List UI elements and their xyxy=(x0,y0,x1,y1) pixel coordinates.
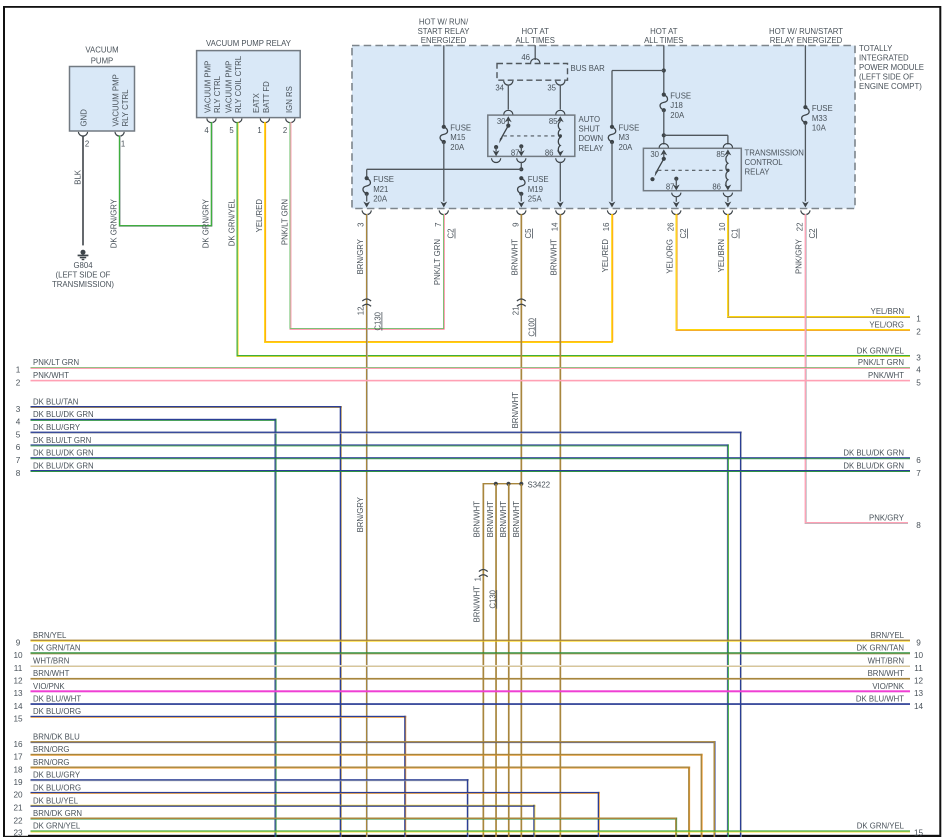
wire DK GRN/GRY pump to relay pin 4 xyxy=(119,122,213,227)
svg-text:DOWN: DOWN xyxy=(579,134,604,143)
svg-text:12: 12 xyxy=(357,307,366,316)
svg-text:14: 14 xyxy=(13,702,23,711)
right edge 6 DK BLU/DK GRN xyxy=(843,449,921,465)
svg-text:21: 21 xyxy=(511,307,520,316)
svg-text:BRN/WHT: BRN/WHT xyxy=(33,669,70,678)
vacuum pump relay box xyxy=(197,51,301,118)
label YEL/RED (TIPM pin 16) xyxy=(601,239,610,273)
wire DK BLU/DK GRN left 8 to right 7 xyxy=(16,461,910,477)
right edge 2 YEL/ORG xyxy=(869,320,921,336)
label BRN/WHT below C130 xyxy=(473,586,482,623)
wire TCR 86 to pin 10 xyxy=(725,196,732,207)
wire VIO/PNK left 13 to right 13 xyxy=(13,682,923,698)
wire BRN/WHT TIPM pin 9 to splice S3422 xyxy=(521,214,523,484)
svg-text:PNK/WHT: PNK/WHT xyxy=(33,371,69,380)
svg-text:PNK/LT GRN: PNK/LT GRN xyxy=(281,199,290,245)
svg-text:20A: 20A xyxy=(373,195,388,204)
svg-text:25A: 25A xyxy=(528,195,543,204)
svg-text:RLY CTRL: RLY CTRL xyxy=(213,75,222,113)
svg-text:VACUUM: VACUUM xyxy=(85,46,118,55)
label DK GRN/YEL (relay) xyxy=(227,198,236,246)
wire BRN/DK GRN left 22 xyxy=(13,809,677,837)
svg-text:4: 4 xyxy=(916,366,921,375)
wire DK BLU/ORG left 20 xyxy=(13,783,599,837)
label BRN/WHT (above splice) xyxy=(511,392,520,429)
svg-text:10: 10 xyxy=(914,651,924,660)
svg-text:10: 10 xyxy=(13,651,23,660)
svg-text:10A: 10A xyxy=(812,124,827,133)
svg-text:RELAY: RELAY xyxy=(745,167,771,176)
svg-text:ENGINE COMPT): ENGINE COMPT) xyxy=(859,82,922,91)
svg-text:DK BLU/WHT: DK BLU/WHT xyxy=(856,695,904,704)
fuse M19 25A xyxy=(518,175,549,204)
wire BRN/DK BLU left 16 xyxy=(13,733,715,837)
wire DK BLU/WHT left 14 to right 14 xyxy=(13,695,923,711)
wire YEL/RED relay pin 1 to TIPM pin 16 xyxy=(264,122,613,343)
svg-text:7: 7 xyxy=(16,456,21,465)
label BRN/GRY (upper) xyxy=(356,238,365,274)
ASD pin 87 connector arc xyxy=(517,158,526,162)
svg-text:DK GRN/YEL: DK GRN/YEL xyxy=(857,346,905,355)
svg-text:BRN/YEL: BRN/YEL xyxy=(33,631,67,640)
svg-text:BRN/WHT: BRN/WHT xyxy=(473,586,482,623)
wire BRN/WHT splice branch 3 xyxy=(508,484,510,837)
wire PNK/GRY TIPM pin 22 to right edge 8 xyxy=(805,214,908,524)
splice S3422 xyxy=(483,480,551,837)
TIPM pin 14 xyxy=(550,210,565,231)
svg-text:15: 15 xyxy=(914,828,924,837)
wire feed into bus bar pin 46 xyxy=(534,45,536,60)
wire BRN/ORG left 17 xyxy=(13,745,702,837)
svg-text:86: 86 xyxy=(545,148,554,157)
wire branch to fuse M3 xyxy=(612,71,664,127)
wire BRN/WHT splice branch 4 xyxy=(521,484,523,837)
ASD pin 85 label xyxy=(549,117,558,126)
svg-text:ALL TIMES: ALL TIMES xyxy=(515,36,554,45)
svg-text:87: 87 xyxy=(666,182,675,191)
wire fuse J18 to TCR pin 30 xyxy=(663,110,665,144)
svg-text:23: 23 xyxy=(13,828,23,837)
wire DK BLU/LT GRN left 6 xyxy=(16,436,729,837)
svg-text:C1: C1 xyxy=(731,229,740,239)
svg-text:DK GRN/YEL: DK GRN/YEL xyxy=(227,198,236,246)
TIPM module box (TOTALLY INTEGRATED POWER MODULE) xyxy=(352,46,855,209)
svg-text:FUSE: FUSE xyxy=(670,91,691,100)
junction dot fuse M19/M21 xyxy=(519,167,523,171)
TCR pin 87 label xyxy=(666,182,675,191)
svg-text:FUSE: FUSE xyxy=(812,104,833,113)
svg-text:BRN/GRY: BRN/GRY xyxy=(356,496,365,532)
bus bar pin 34 xyxy=(495,81,513,93)
svg-text:3: 3 xyxy=(357,223,366,227)
wire HOT W/RUN/START relay energized feed to fuse M33 xyxy=(804,45,806,107)
svg-text:C100: C100 xyxy=(527,317,536,336)
svg-text:6: 6 xyxy=(916,456,921,465)
svg-text:13: 13 xyxy=(914,689,924,698)
svg-text:11: 11 xyxy=(914,664,923,673)
ASD pin 85 entry arrow xyxy=(557,116,564,122)
right edge 5 PNK/WHT xyxy=(868,371,921,387)
TCR pin 86 label xyxy=(712,182,721,191)
wire BRN/WHT TIPM pin 14 down to bottom xyxy=(560,214,562,837)
wire fuse M3 to pin 16 xyxy=(609,142,616,208)
wire DK BLU/DK GRN left 4 xyxy=(16,410,277,837)
wire DK GRN/TAN left 10 to right 10 xyxy=(13,644,923,660)
svg-text:11: 11 xyxy=(14,664,23,673)
inline connector C130 pin 12 on BRN/GRY xyxy=(357,299,383,331)
TIPM pin 22 xyxy=(795,210,817,238)
svg-text:VACUUM PMP: VACUUM PMP xyxy=(204,61,213,113)
TIPM pin 16 xyxy=(602,210,617,231)
svg-text:1: 1 xyxy=(257,126,261,135)
svg-text:DK BLU/GRY: DK BLU/GRY xyxy=(33,423,81,432)
vacuum pump pin RLY CTRL label xyxy=(112,74,131,126)
svg-text:13: 13 xyxy=(13,689,23,698)
TCR pin 87 dot xyxy=(674,177,678,181)
svg-text:RLY CTRL: RLY CTRL xyxy=(121,89,130,127)
svg-text:BATT FD: BATT FD xyxy=(262,81,271,113)
wire junction to fuse M21 xyxy=(367,169,522,178)
relay pin 1 number xyxy=(257,126,261,135)
TCR mechanical link dashed xyxy=(658,169,723,171)
svg-text:POWER MODULE: POWER MODULE xyxy=(859,63,924,72)
ASD pin 30 connector arc xyxy=(504,110,513,114)
svg-text:8: 8 xyxy=(916,521,921,530)
fuse M33 10A xyxy=(802,104,833,133)
label BRN/WHT (pin 14) xyxy=(549,239,558,276)
bus bar pin 35 xyxy=(547,81,565,93)
svg-text:BUS BAR: BUS BAR xyxy=(571,64,606,73)
svg-text:START RELAY: START RELAY xyxy=(418,27,471,36)
svg-text:1: 1 xyxy=(916,314,921,323)
svg-text:C2: C2 xyxy=(447,229,456,239)
svg-text:1: 1 xyxy=(16,366,21,375)
wire fuse M19 to pin 9 xyxy=(518,194,525,208)
svg-text:ALL TIMES: ALL TIMES xyxy=(644,36,683,45)
vacuum pump pin 1 connector arc xyxy=(115,132,124,136)
TCR pin 85 connector arc xyxy=(723,143,732,147)
svg-text:DK GRN/YEL: DK GRN/YEL xyxy=(33,822,81,831)
ASD switch common dot xyxy=(506,124,510,128)
svg-text:(LEFT SIDE OF: (LEFT SIDE OF xyxy=(859,72,914,81)
svg-text:85: 85 xyxy=(549,117,558,126)
svg-text:DK BLU/DK GRN: DK BLU/DK GRN xyxy=(843,449,904,458)
inline connector C100 pin 21 on BRN/WHT xyxy=(511,299,536,337)
svg-text:1: 1 xyxy=(473,577,482,581)
svg-text:M21: M21 xyxy=(373,185,388,194)
svg-text:C5: C5 xyxy=(524,228,533,239)
wire BRN/ORG left 18 xyxy=(13,758,690,837)
TIPM pin 10 xyxy=(718,210,740,238)
fuse M3 20A xyxy=(608,123,639,152)
svg-text:GND: GND xyxy=(79,109,88,127)
svg-text:9: 9 xyxy=(916,638,921,647)
ASD 87A connector arc xyxy=(492,158,501,162)
svg-text:5: 5 xyxy=(916,378,921,387)
svg-text:AUTO: AUTO xyxy=(579,115,601,124)
TCR switch contact dot xyxy=(650,177,654,181)
svg-text:20A: 20A xyxy=(619,143,634,152)
relay pin 1 label xyxy=(252,81,271,113)
TCR relay coil xyxy=(726,155,730,188)
svg-text:DK BLU/WHT: DK BLU/WHT xyxy=(33,695,81,704)
svg-text:6: 6 xyxy=(16,443,21,452)
svg-text:HOT AT: HOT AT xyxy=(650,27,678,36)
wire PNK/LT GRN relay pin 2 to TIPM pin 7 xyxy=(290,122,446,330)
svg-text:4: 4 xyxy=(16,418,21,427)
junction dot M3 branch xyxy=(662,68,666,72)
svg-text:PNK/GRY: PNK/GRY xyxy=(795,238,804,274)
svg-text:35: 35 xyxy=(547,84,556,93)
svg-text:BRN/WHT: BRN/WHT xyxy=(549,239,558,276)
svg-text:DK GRN/GRY: DK GRN/GRY xyxy=(110,198,119,248)
label PNK/GRY xyxy=(795,238,804,274)
ASD pin 30 label xyxy=(497,117,506,126)
wire fuse M21 to pin 3 xyxy=(363,194,370,208)
svg-text:J18: J18 xyxy=(670,101,683,110)
ASD 87A exit arrow xyxy=(493,147,500,156)
svg-text:18: 18 xyxy=(13,765,23,774)
label BUS BAR xyxy=(571,64,606,73)
svg-text:30: 30 xyxy=(497,117,506,126)
svg-text:3: 3 xyxy=(16,405,21,414)
vacuum pump pin 1 number xyxy=(121,140,125,149)
svg-text:30: 30 xyxy=(650,150,659,159)
label YEL/BRN xyxy=(717,239,726,272)
wire DK BLU/GRY left 5 xyxy=(16,423,742,837)
svg-text:DK BLU/DK GRN: DK BLU/DK GRN xyxy=(33,410,94,419)
svg-text:2: 2 xyxy=(916,328,921,337)
TCR pin 30 connector arc xyxy=(659,143,668,147)
svg-text:PNK/LT GRN: PNK/LT GRN xyxy=(858,358,904,367)
relay pin 4 label xyxy=(204,61,223,113)
svg-text:PNK/LT GRN: PNK/LT GRN xyxy=(33,358,79,367)
relay pin 5 label xyxy=(224,55,243,113)
wire branch to TCR pin 85 xyxy=(664,135,728,144)
inline connector C130 pin 1 on BRN/WHT xyxy=(473,570,497,609)
svg-text:WHT/BRN: WHT/BRN xyxy=(868,656,904,665)
right edge 4 PNK/LT GRN xyxy=(858,358,921,374)
svg-text:PNK/GRY: PNK/GRY xyxy=(869,514,905,523)
svg-text:S3422: S3422 xyxy=(528,480,551,489)
svg-text:DK BLU/ORG: DK BLU/ORG xyxy=(33,783,81,792)
svg-text:22: 22 xyxy=(795,223,804,232)
svg-text:HOT AT: HOT AT xyxy=(521,27,549,36)
wire HOT W/RUN/START feed to fuse M15 xyxy=(443,45,445,127)
svg-text:DK GRN/TAN: DK GRN/TAN xyxy=(33,644,81,653)
TIPM pin 9 xyxy=(511,210,533,238)
wire bus bar 35 to ASD relay 85 xyxy=(559,85,561,110)
wire TCR 87 to pin 26 xyxy=(673,196,680,207)
svg-text:20A: 20A xyxy=(450,143,465,152)
label VACUUM PUMP RELAY xyxy=(206,39,292,48)
svg-text:8: 8 xyxy=(16,469,21,478)
wire BRN/WHT splice branch 2 xyxy=(495,484,497,837)
wire bus bar 34 to ASD relay 30 xyxy=(507,85,509,110)
label BRN/WHT (pin 9) xyxy=(510,239,519,276)
relay pin 1 connector arc xyxy=(260,119,269,123)
svg-text:YEL/RED: YEL/RED xyxy=(255,199,264,233)
relay pin 5 connector arc xyxy=(233,119,242,123)
svg-text:TOTALLY: TOTALLY xyxy=(859,44,893,53)
vacuum pump box xyxy=(70,67,135,132)
ASD pin 86 connector arc xyxy=(556,158,565,162)
svg-text:12: 12 xyxy=(914,677,924,686)
svg-text:5: 5 xyxy=(229,126,234,135)
svg-text:M19: M19 xyxy=(528,185,543,194)
feed label HOT W/ RUN/START RELAY ENERGIZED (fuse M33) xyxy=(769,27,843,45)
svg-text:YEL/BRN: YEL/BRN xyxy=(871,307,904,316)
svg-text:YEL/BRN: YEL/BRN xyxy=(717,239,726,272)
ASD pin 85 connector arc xyxy=(556,110,565,114)
svg-text:HOT W/ RUN/START: HOT W/ RUN/START xyxy=(769,27,843,36)
svg-text:TRANSMISSION): TRANSMISSION) xyxy=(52,280,114,289)
wire WHT/BRN left 11 to right 11 xyxy=(14,656,923,672)
wire DK GRN/YEL left 23 to right 15 xyxy=(13,822,923,837)
svg-text:HOT W/ RUN/: HOT W/ RUN/ xyxy=(419,17,469,26)
label AUTO SHUT DOWN RELAY xyxy=(579,115,605,153)
wire fuse M15 to pin 7 xyxy=(440,142,447,208)
svg-text:DK GRN/TAN: DK GRN/TAN xyxy=(856,644,904,653)
svg-text:FUSE: FUSE xyxy=(450,123,471,132)
svg-text:INTEGRATED: INTEGRATED xyxy=(859,54,909,63)
label DK GRN/GRY (relay side) xyxy=(202,198,211,248)
wire DK GRN/YEL relay pin 5 to right edge 3 xyxy=(237,122,911,357)
wire YEL/ORG TIPM pin 26 to right edge 2 xyxy=(676,214,911,331)
svg-text:87: 87 xyxy=(511,148,520,157)
svg-text:2: 2 xyxy=(85,140,89,149)
svg-text:BRN/WHT: BRN/WHT xyxy=(511,392,520,429)
svg-text:WHT/BRN: WHT/BRN xyxy=(33,656,69,665)
svg-text:VIO/PNK: VIO/PNK xyxy=(33,682,65,691)
svg-text:M3: M3 xyxy=(619,133,630,142)
svg-text:7: 7 xyxy=(434,223,443,227)
svg-text:(LEFT SIDE OF: (LEFT SIDE OF xyxy=(56,270,111,279)
wire YEL/BRN TIPM pin 10 to right edge 1 xyxy=(727,214,910,318)
relay pin 4 number xyxy=(204,126,209,135)
svg-text:DK BLU/DK GRN: DK BLU/DK GRN xyxy=(843,461,904,470)
svg-text:7: 7 xyxy=(916,469,921,478)
svg-text:19: 19 xyxy=(13,778,23,787)
svg-text:DK BLU/LT GRN: DK BLU/LT GRN xyxy=(33,436,91,445)
TIPM pin 3 xyxy=(357,210,372,226)
TCR pin 30 label xyxy=(650,150,659,159)
svg-text:2: 2 xyxy=(283,126,287,135)
bus bar box xyxy=(497,64,568,81)
svg-text:DK BLU/GRY: DK BLU/GRY xyxy=(33,771,81,780)
label PNK/LT GRN (relay) xyxy=(281,199,290,245)
vacuum pump pin 2 number xyxy=(85,140,89,149)
svg-text:46: 46 xyxy=(521,53,530,62)
ASD pin 87 exit arrow xyxy=(518,146,525,156)
svg-text:FUSE: FUSE xyxy=(619,123,640,132)
svg-text:BRN/WHT: BRN/WHT xyxy=(510,239,519,276)
wire BRN/GRY TIPM pin 3 down to bottom xyxy=(366,214,368,837)
svg-text:BRN/WHT: BRN/WHT xyxy=(499,501,508,538)
svg-text:IGN RS: IGN RS xyxy=(285,86,294,113)
svg-text:ENERGIZED: ENERGIZED xyxy=(421,36,467,45)
svg-text:2: 2 xyxy=(16,378,21,387)
relay pin 2 label xyxy=(285,86,294,113)
svg-text:RLY COIL CTRL: RLY COIL CTRL xyxy=(234,55,243,113)
svg-text:VACUUM PMP: VACUUM PMP xyxy=(224,61,233,113)
label YEL/ORG xyxy=(666,239,675,274)
svg-text:BRN/WHT: BRN/WHT xyxy=(473,501,482,538)
svg-text:BRN/WHT: BRN/WHT xyxy=(486,501,495,538)
svg-text:BRN/ORG: BRN/ORG xyxy=(33,745,69,754)
TCR pin 85 label xyxy=(716,150,725,159)
svg-text:9: 9 xyxy=(16,638,21,647)
svg-text:10: 10 xyxy=(718,222,727,231)
bus bar pin 46 xyxy=(521,53,539,63)
wire BRN/WHT left 12 to right 12 xyxy=(13,669,923,685)
svg-text:4: 4 xyxy=(204,126,209,135)
svg-text:RELAY: RELAY xyxy=(579,144,605,153)
wire fuse M33 to pin 22 xyxy=(802,123,809,208)
svg-text:1: 1 xyxy=(121,140,125,149)
svg-text:PNK/WHT: PNK/WHT xyxy=(868,371,904,380)
ASD switch blade xyxy=(499,126,508,144)
svg-text:BLK: BLK xyxy=(74,169,83,185)
svg-text:86: 86 xyxy=(712,182,721,191)
ASD pin 86 label xyxy=(545,148,554,157)
relay pin 2 number xyxy=(283,126,287,135)
svg-text:DK BLU/ORG: DK BLU/ORG xyxy=(33,707,81,716)
svg-text:DK BLU/TAN: DK BLU/TAN xyxy=(33,397,78,406)
TCR pin 85 entry arrow xyxy=(725,149,732,155)
transmission control relay box xyxy=(643,148,741,190)
wire DK BLU/DK GRN left 7 to right 6 xyxy=(16,449,910,465)
svg-text:G804: G804 xyxy=(73,261,93,270)
ASD switch contact 87A dot xyxy=(494,145,498,149)
svg-text:BRN/WHT: BRN/WHT xyxy=(512,501,521,538)
TCR pin 87 connector arc xyxy=(672,193,681,197)
svg-text:DK GRN/YEL: DK GRN/YEL xyxy=(857,822,905,831)
svg-text:DK BLU/DK GRN: DK BLU/DK GRN xyxy=(33,461,94,470)
wire DK BLU/GRY left 19 xyxy=(13,771,468,837)
svg-text:22: 22 xyxy=(13,816,23,825)
right edge 3 DK GRN/YEL xyxy=(857,346,921,362)
right edge 7 DK BLU/DK GRN xyxy=(843,461,921,477)
svg-text:20A: 20A xyxy=(670,111,685,120)
TCR switch common dot xyxy=(662,157,666,161)
feed label HOT AT ALL TIMES (bus bar) xyxy=(515,27,554,45)
svg-text:12: 12 xyxy=(13,677,23,686)
svg-text:C2: C2 xyxy=(679,229,688,239)
svg-text:RELAY ENERGIZED: RELAY ENERGIZED xyxy=(770,36,843,45)
svg-text:FUSE: FUSE xyxy=(373,175,394,184)
TIPM pin 26 xyxy=(666,210,688,238)
wire ASD 86 to pin 14 xyxy=(557,162,564,208)
ground G804 xyxy=(78,250,89,260)
bottom section divider bar xyxy=(3,835,941,837)
TCR switch blade xyxy=(655,159,664,177)
relay pin 5 number xyxy=(229,126,234,135)
TCR pin 30 entry arrow xyxy=(660,149,667,157)
svg-text:SHUT: SHUT xyxy=(579,125,600,134)
svg-text:C130: C130 xyxy=(374,311,383,330)
svg-text:9: 9 xyxy=(511,223,520,227)
svg-text:BRN/YEL: BRN/YEL xyxy=(871,631,905,640)
svg-text:BRN/DK GRN: BRN/DK GRN xyxy=(33,809,82,818)
label VACUUM PUMP xyxy=(85,46,118,66)
svg-text:21: 21 xyxy=(13,804,23,813)
svg-text:VIO/PNK: VIO/PNK xyxy=(872,682,904,691)
auto shut down relay box xyxy=(488,115,575,156)
svg-text:17: 17 xyxy=(13,753,23,762)
label BLK xyxy=(74,169,83,185)
wire ASD 87 to junction xyxy=(520,162,522,170)
